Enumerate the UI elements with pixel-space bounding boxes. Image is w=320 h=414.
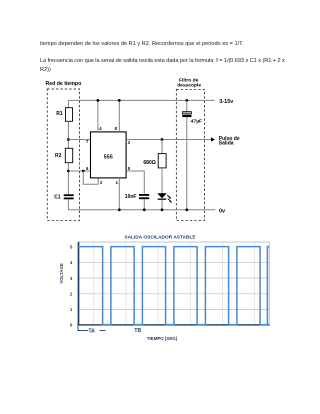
- svg-text:4: 4: [70, 260, 73, 265]
- chart title: [124, 235, 196, 241]
- pin label 5: [128, 166, 131, 171]
- node output 680 junction: [161, 138, 164, 141]
- wire C1 bottom: [67, 199, 69, 210]
- node pin 4 rail junction: [97, 99, 100, 102]
- svg-text:47µF: 47µF: [191, 119, 202, 125]
- annotation TA: [78, 325, 106, 334]
- pin label 4: [99, 126, 102, 131]
- node pin1 ground junction: [118, 208, 121, 211]
- wire pin 7: [68, 139, 90, 141]
- svg-text:1: 1: [70, 307, 73, 312]
- svg-text:0v: 0v: [219, 209, 226, 215]
- svg-text:3: 3: [128, 140, 131, 145]
- wire 47uF top: [186, 100, 188, 111]
- chart y axis spine: [78, 242, 80, 325]
- node R2-C1 junction: [67, 170, 70, 173]
- node 47uF rail junction: [185, 99, 188, 102]
- resistor R1: [56, 108, 72, 122]
- wire R1 top: [67, 100, 69, 107]
- wire pin 4: [97, 100, 99, 131]
- label Pulso de Salida: [219, 136, 240, 147]
- wire 680 top: [161, 140, 163, 154]
- pin label 1: [116, 180, 119, 185]
- svg-text:TIEMPO [SEG]: TIEMPO [SEG]: [147, 336, 178, 341]
- wire pin 6: [68, 170, 90, 172]
- chart x axis title TIEMPO [SEG]: [147, 336, 178, 341]
- pin label 7: [86, 139, 89, 144]
- chart vertical gridlines: [94, 242, 255, 325]
- node 47uF ground junction: [185, 208, 188, 211]
- svg-text:0: 0: [70, 323, 73, 328]
- svg-text:R2: R2: [55, 153, 62, 159]
- node 10nF ground junction: [143, 208, 146, 211]
- svg-text:2: 2: [100, 180, 103, 185]
- wire pin 2 staircase: [83, 171, 98, 184]
- svg-text:4: 4: [99, 126, 102, 131]
- wire R1 to R2: [67, 121, 69, 148]
- wire R2 to C1: [67, 163, 69, 195]
- resistor 680ohm: [143, 154, 166, 168]
- capacitor C3 47uF electrolytic: [182, 112, 202, 125]
- pin label 2: [100, 180, 103, 185]
- wire pin 8: [118, 100, 120, 131]
- svg-text:TA: TA: [89, 329, 96, 335]
- label Red de tiempo: [46, 81, 82, 87]
- wire pin 1 to ground rail: [118, 178, 120, 210]
- paragraph line 3: [40, 67, 51, 73]
- svg-text:2: 2: [70, 291, 73, 296]
- wire 680 to LED: [161, 168, 163, 194]
- svg-text:Salida: Salida: [219, 140, 234, 146]
- annotation TB: [134, 328, 141, 334]
- svg-text:10nF: 10nF: [125, 194, 137, 200]
- node LED ground junction: [161, 208, 164, 211]
- chart horizontal gridlines: [78, 262, 269, 309]
- svg-text:C1: C1: [54, 194, 61, 200]
- chart y axis title VOLTAGE: [59, 263, 64, 284]
- wire LED to ground: [161, 200, 163, 210]
- resistor R2: [55, 148, 73, 162]
- dashed box filtro de desacople: [176, 89, 204, 220]
- svg-text:SALIDA OSCILADOR ASTABLE: SALIDA OSCILADOR ASTABLE: [124, 235, 196, 241]
- dashed box red de tiempo: [47, 89, 79, 220]
- node R1-R2 junction: [67, 138, 70, 141]
- pin label 8: [115, 126, 118, 131]
- wire top rail: [68, 99, 214, 101]
- chart plot border: [78, 242, 269, 325]
- node pin 8 rail junction: [118, 99, 121, 102]
- chart waveform square wave: [78, 247, 269, 325]
- wire 47uF to ground: [186, 117, 188, 210]
- node pin2 branch junction: [82, 170, 85, 173]
- wire pin 5 to 10nF: [126, 171, 144, 194]
- svg-text:3-15v: 3-15v: [219, 99, 234, 105]
- pin label 3: [128, 140, 131, 145]
- capacitor C1: [54, 194, 73, 200]
- svg-text:R1: R1: [56, 111, 63, 117]
- paragraph line 1: [40, 41, 244, 47]
- label 3-15v: [219, 99, 234, 105]
- LED diode: [158, 194, 173, 203]
- svg-text:3: 3: [70, 276, 73, 281]
- svg-text:5: 5: [128, 166, 131, 171]
- capacitor 10nF: [125, 194, 149, 200]
- chart y axis labels: [70, 245, 73, 328]
- svg-text:Red de tiempo: Red de tiempo: [46, 81, 82, 87]
- svg-text:1: 1: [116, 180, 119, 185]
- svg-text:8: 8: [115, 126, 118, 131]
- wire 10nF to ground: [143, 199, 145, 210]
- paragraph line 2: [40, 58, 285, 64]
- label Filtro de desacople: [177, 77, 201, 88]
- svg-text:555: 555: [104, 155, 113, 161]
- svg-text:desacople: desacople: [177, 82, 201, 88]
- op-amp U1 555 box: [91, 132, 127, 178]
- wire bottom rail: [68, 209, 215, 211]
- svg-text:5: 5: [70, 245, 73, 250]
- chart x axis spine: [78, 324, 270, 326]
- svg-text:VOLTAGE: VOLTAGE: [59, 263, 64, 284]
- pin label 6: [86, 166, 89, 171]
- svg-text:6: 6: [86, 166, 89, 171]
- label 0v: [219, 209, 226, 215]
- svg-text:TB: TB: [134, 328, 141, 334]
- svg-text:680Ω: 680Ω: [143, 160, 155, 166]
- wire pin 3 output with arrow: [126, 137, 215, 141]
